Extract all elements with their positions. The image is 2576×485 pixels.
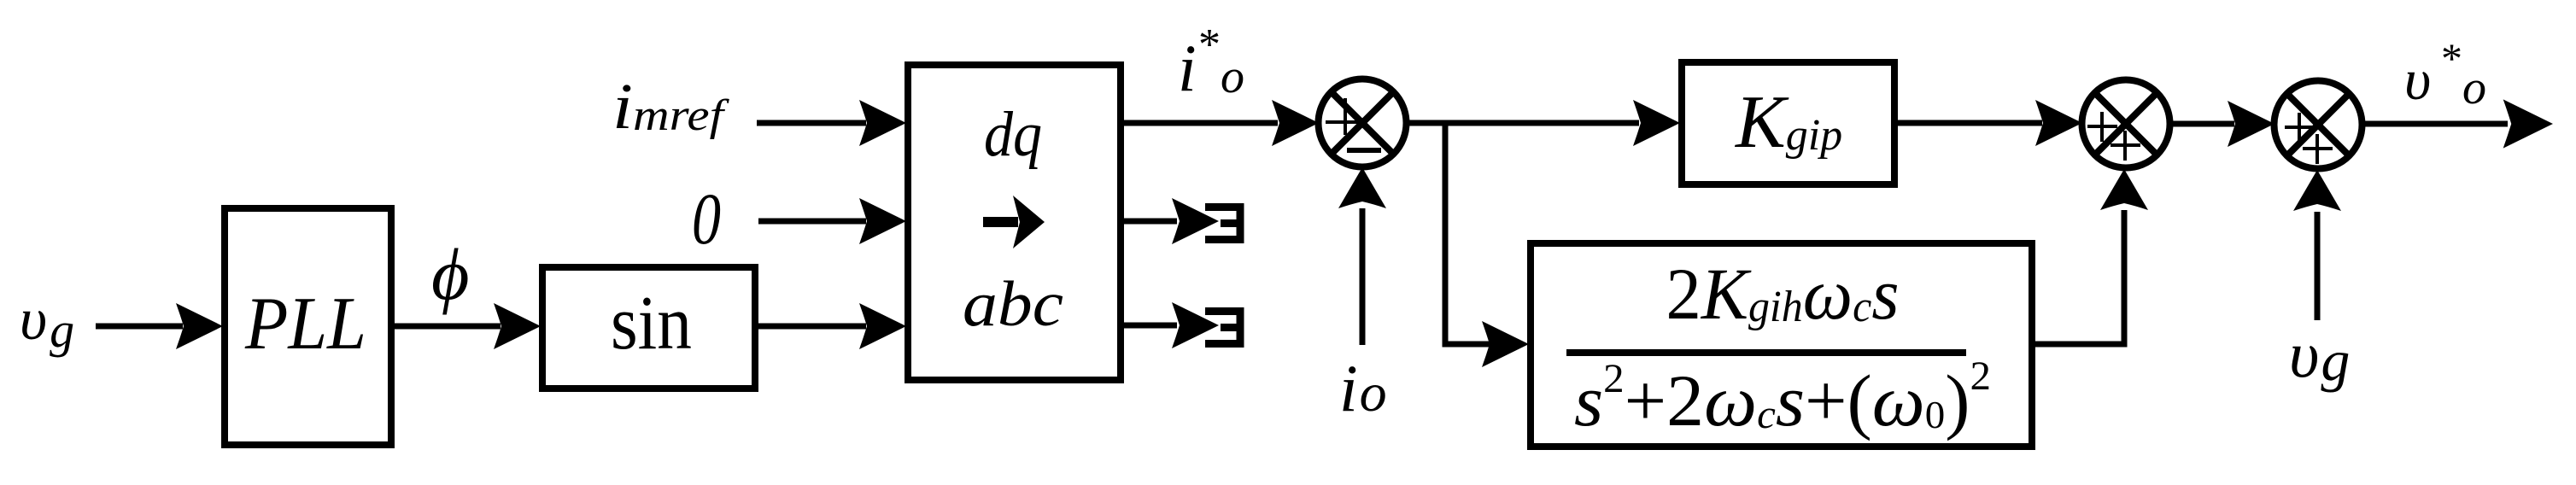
wire sum2 to sum3 [2169,121,2234,127]
svg-text:*: * [2441,34,2462,82]
wire vg up to sum3 [2315,212,2321,320]
terminator 2 [1205,307,1240,348]
wire imref to dq/abc [757,120,866,126]
wire Kgip to sum2 [1898,120,2042,126]
block sin [542,267,755,389]
summing junction sum2 [2082,80,2170,168]
summing junction sum3 [2274,81,2362,169]
svg-text:0: 0 [692,178,721,260]
block dq->abc [908,65,1121,380]
wire dq/abc to sum1 [1124,120,1278,126]
wire sum3 to output [2362,121,2508,127]
svg-text:io: io [1339,351,1387,425]
wire sum1 to Kgip with branch [1407,120,1639,126]
summing junction sum1 [1319,79,1407,167]
wire branch down and right to harmonic block [1445,120,1490,344]
block harmonic resonant transfer function [1531,243,2032,447]
terminator 1 [1205,203,1240,243]
svg-text:o: o [1221,50,1244,103]
svg-text:o: o [2462,61,2486,114]
block Kgip [1682,62,1894,184]
wire dq/abc to terminator1 [1124,219,1177,225]
svg-text:PLL: PLL [244,283,366,365]
wire io up to sum1 [1360,208,1366,345]
svg-text:ϕ: ϕ [431,233,470,315]
wire PLL to sin [395,324,501,330]
svg-text:υ: υ [2404,47,2431,112]
block PLL [225,208,391,445]
svg-text:i: i [1178,31,1197,105]
svg-text:sin: sin [611,281,692,365]
svg-text:*: * [1198,20,1221,69]
wire vg to PLL [96,324,183,330]
wire dq/abc to terminator2 [1124,323,1177,329]
wire 0 to dq/abc [758,219,866,225]
wire harmonic block output up to sum2 [2035,210,2124,344]
wire sin to dq/abc [758,324,866,330]
svg-text:abc: abc [963,269,1063,340]
svg-text:dq: dq [984,99,1042,170]
